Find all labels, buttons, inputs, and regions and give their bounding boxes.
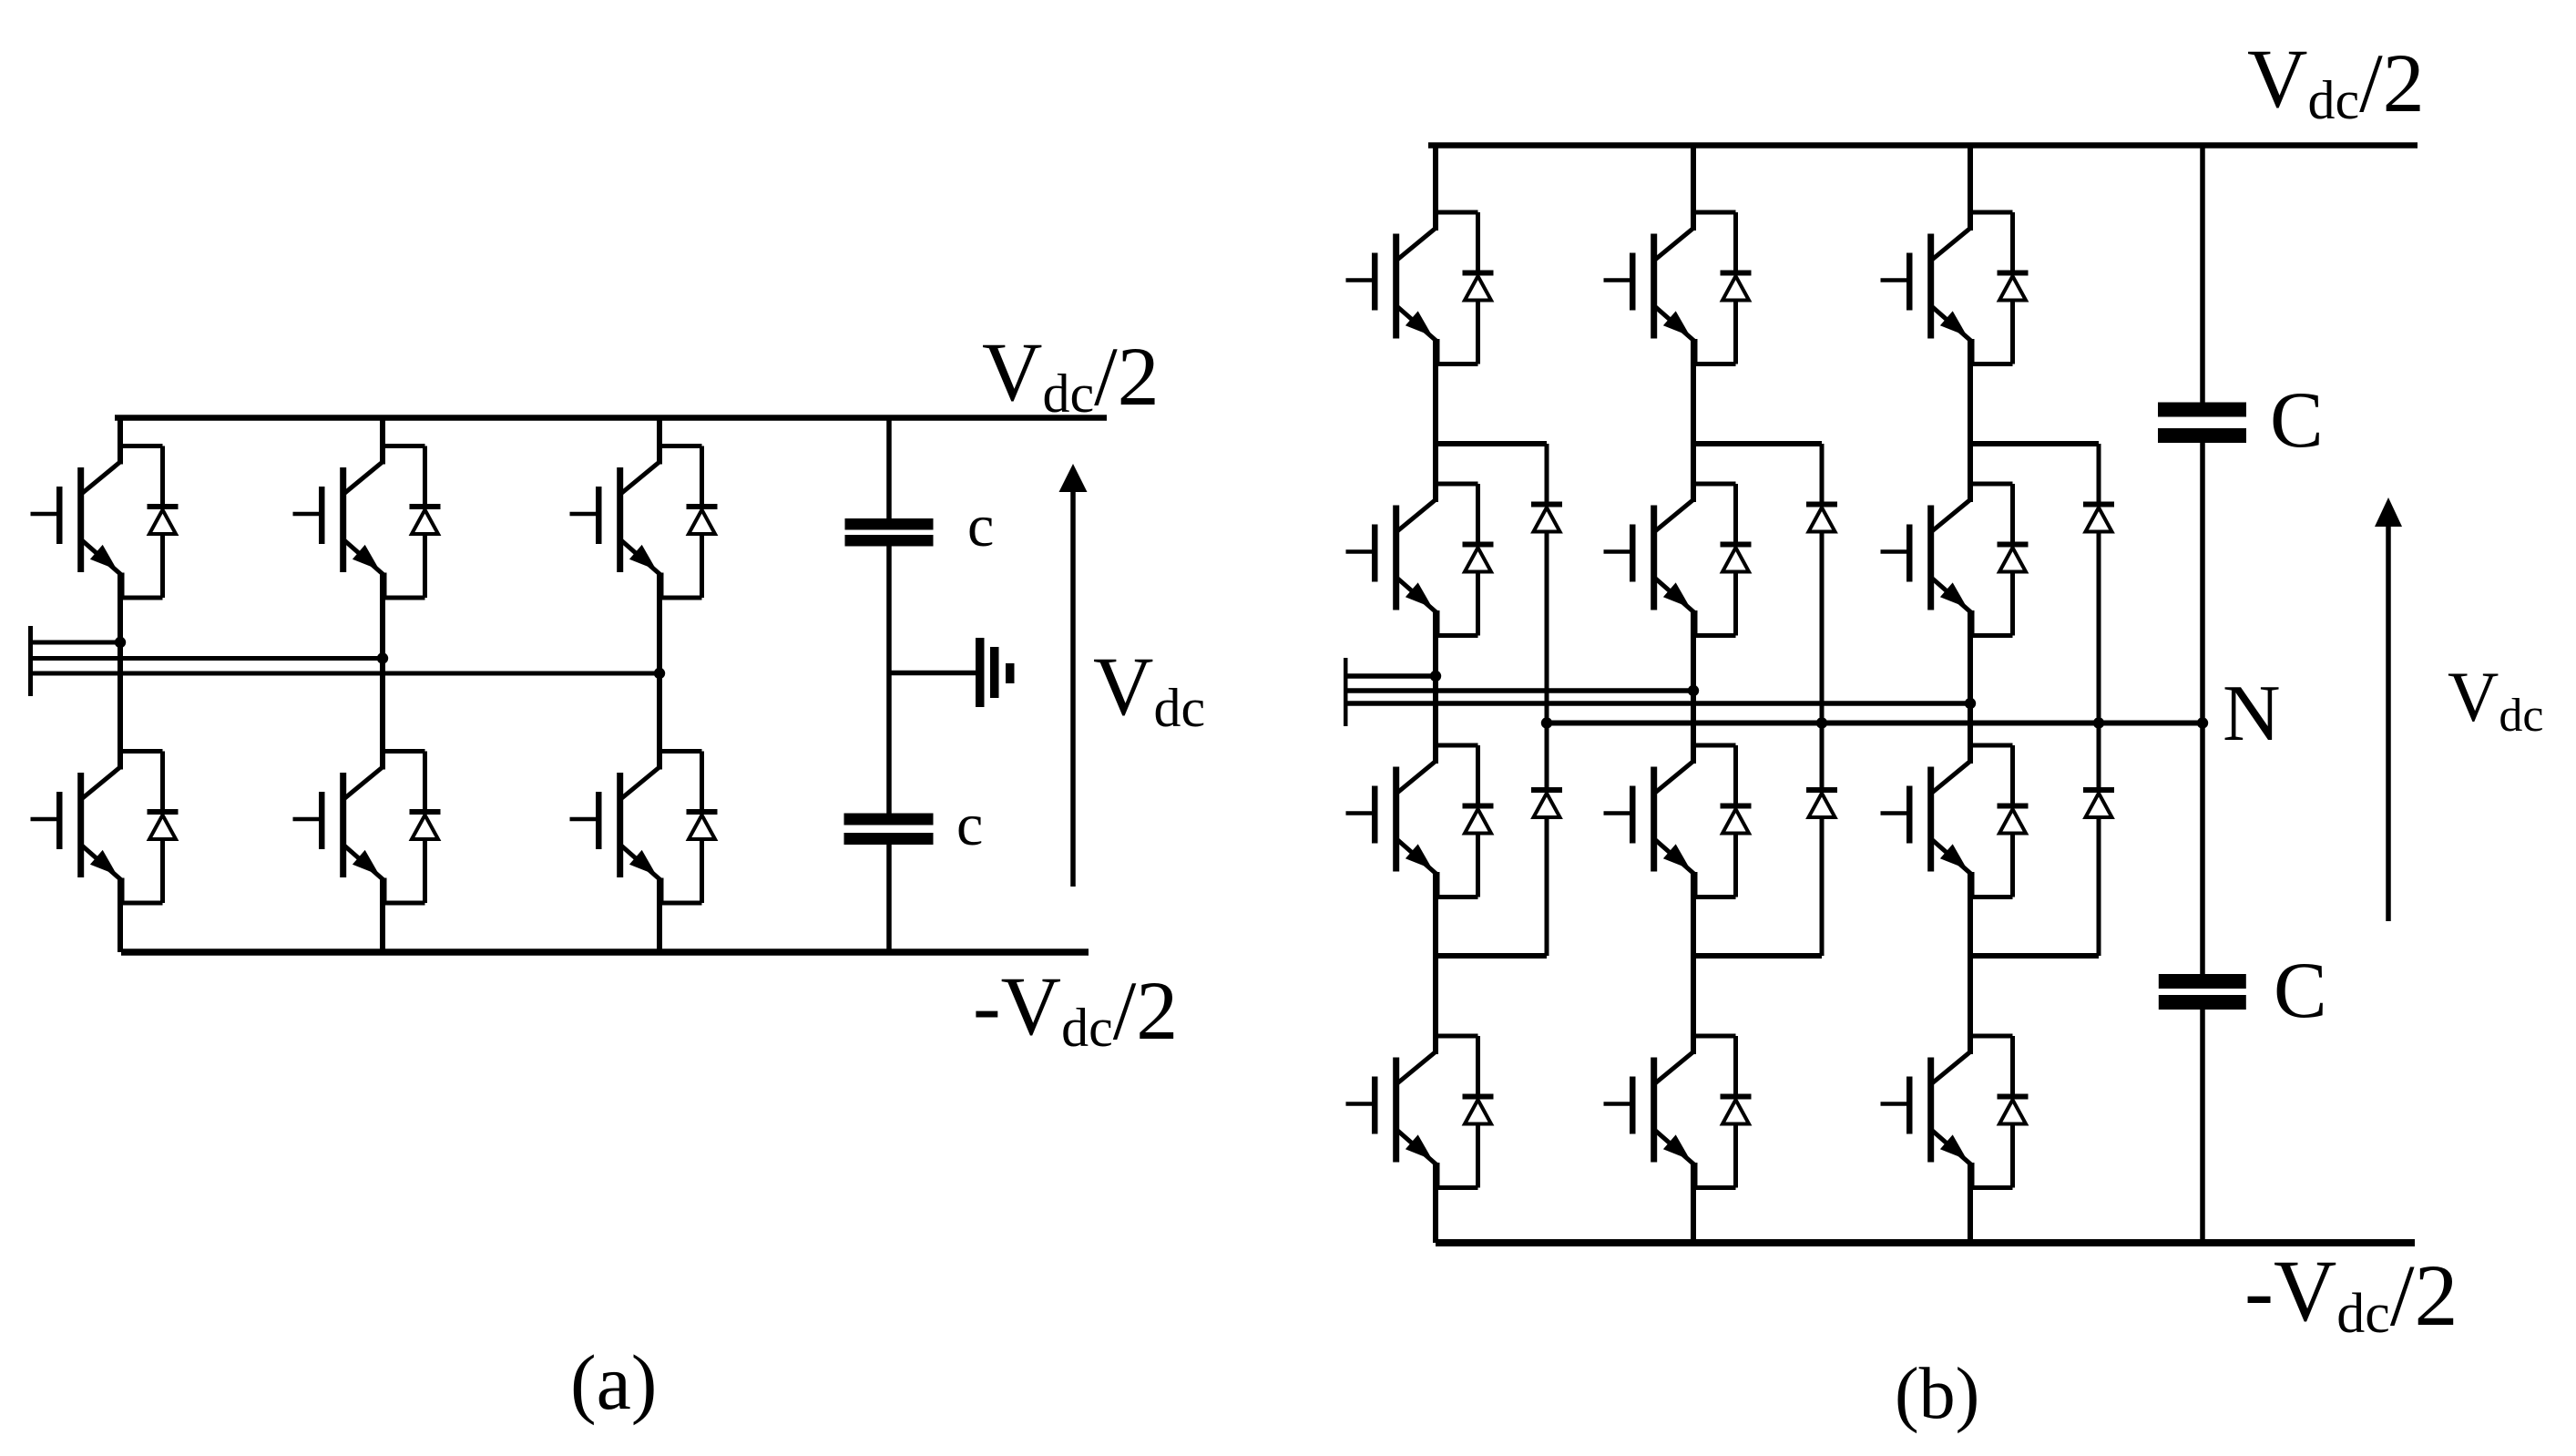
diode DA1 (b) upper clamping diode leg A bbox=[1545, 444, 1549, 502]
wire: leg B (a) midpoint vertical (S3 emitter to S4 collector) bbox=[380, 573, 385, 770]
circuit (b): three-level NPC inverter — top DC rail (+Vdc/2) bbox=[1428, 142, 2418, 149]
wire: leg A (a) collector post from +rail bbox=[118, 418, 123, 465]
wire: DC-link branch middle segment (a) bbox=[886, 547, 892, 815]
node: phase B junction dot (a) bbox=[377, 652, 388, 663]
wire: phase A output line (b) bbox=[1347, 673, 1436, 679]
wire: leg A (b) vertical SA3 emitter through J2 to SA4 bbox=[1433, 872, 1438, 1054]
wire: leg C (b) vertical SC2 emitter through phase node to SC3 bbox=[1968, 610, 1973, 764]
transistor S5 (a) top IGBT leg C with freewheeling diode bbox=[570, 444, 718, 600]
wire: DC-link branch lower segment (a) bbox=[886, 845, 892, 952]
wire: clamp branch J2 leg C (b) bbox=[1970, 953, 2099, 959]
transistor SA2 (b) leg A with freewheeling diode bbox=[1346, 481, 1494, 638]
transistor SC1 (b) leg C with freewheeling diode bbox=[1881, 210, 2029, 366]
three-phase output terminal bar (b) bbox=[1344, 658, 1348, 726]
wire: leg B (b) emitter post to -rail bbox=[1691, 1163, 1696, 1243]
wire: DC-link branch lower segment (b) bbox=[2200, 1009, 2205, 1243]
svg-text:(b): (b) bbox=[1895, 1354, 1979, 1434]
capacitor c1 (a) upper DC-link capacitor bbox=[845, 518, 934, 530]
transistor SC4 (b) leg C with freewheeling diode bbox=[1881, 1033, 2029, 1190]
wire: leg C (a) collector post from +rail bbox=[657, 418, 662, 465]
transistor S4 (a) bottom IGBT leg B with freewheeling diode bbox=[293, 749, 441, 906]
svg-text:c: c bbox=[967, 493, 994, 559]
circuit (a): two-level three-phase inverter — top DC rail (+Vdc/2) bbox=[115, 415, 1107, 421]
wire: phase B output line (a) bbox=[33, 656, 383, 661]
wire: leg C (b) vertical SC1 emitter through J1 to SC2 bbox=[1968, 339, 1973, 502]
node: neutral junction dot leg A (b) bbox=[1541, 717, 1552, 728]
wire: leg B (b) collector post from +rail bbox=[1691, 146, 1696, 231]
arrow: Vdc measurement arrow (a) bbox=[1070, 488, 1076, 887]
capacitor C2 (b) lower DC-link capacitor bbox=[2159, 974, 2246, 989]
node: phase A junction dot (b) bbox=[1430, 671, 1441, 682]
wire: leg C (b) emitter post to -rail bbox=[1968, 1163, 1973, 1243]
wire: leg B (b) vertical SB2 emitter through phase node to SB3 bbox=[1691, 610, 1696, 764]
diode DC2 (b) lower clamping diode leg C bbox=[2097, 724, 2101, 787]
wire: leg C (a) midpoint vertical (S5 emitter to S6 collector) bbox=[657, 573, 662, 770]
wire: leg A (b) emitter post to -rail bbox=[1433, 1163, 1438, 1243]
capacitor C1 (b) upper DC-link capacitor bbox=[2158, 403, 2246, 417]
node: phase B junction dot (b) bbox=[1688, 685, 1699, 696]
wire: leg A (a) emitter post to -rail bbox=[118, 878, 123, 953]
diode DB1 (b) upper clamping diode leg B bbox=[1820, 444, 1825, 502]
node: neutral junction dot leg B (b) bbox=[1816, 717, 1827, 728]
wire: ground tap from capacitor midpoint (a) bbox=[889, 671, 976, 676]
wire: leg A (a) midpoint vertical (S1 emitter to S2 collector) bbox=[118, 573, 123, 770]
wire: leg C (a) emitter post to -rail bbox=[657, 878, 662, 953]
wire: leg B (b) vertical SB1 emitter through J1 to SB2 bbox=[1691, 339, 1696, 502]
wire: leg B (b) vertical SB3 emitter through J2 to SB4 bbox=[1691, 872, 1696, 1054]
ground symbol (a) bbox=[976, 638, 985, 707]
wire: DC-link branch middle segment (b) bbox=[2200, 442, 2205, 975]
svg-text:N: N bbox=[2223, 670, 2281, 758]
wire: phase C output line (a) bbox=[33, 672, 659, 676]
transistor S3 (a) top IGBT leg B with freewheeling diode bbox=[293, 444, 441, 600]
transistor S6 (a) bottom IGBT leg C with freewheeling diode bbox=[570, 749, 718, 906]
capacitor c2 (a) lower DC-link capacitor bbox=[844, 814, 934, 825]
wire: leg A (b) vertical SA2 emitter through phase node to SA3 bbox=[1433, 610, 1438, 764]
svg-text:c: c bbox=[956, 792, 983, 858]
wire: clamp branch J2 leg B (b) bbox=[1693, 953, 1822, 959]
diode DC1 (b) upper clamping diode leg C bbox=[2097, 444, 2101, 502]
three-phase output terminal bar (a) bbox=[28, 626, 33, 696]
transistor SB4 (b) leg B with freewheeling diode bbox=[1604, 1033, 1752, 1190]
transistor SA3 (b) leg A with freewheeling diode bbox=[1346, 743, 1494, 899]
diode DB2 (b) lower clamping diode leg B bbox=[1820, 724, 1825, 787]
svg-text:(a): (a) bbox=[570, 1338, 657, 1426]
node: neutral-to-capacitor junction dot (b) bbox=[2197, 717, 2208, 728]
wire: phase B output line (b) bbox=[1347, 688, 1693, 693]
wire: leg B (a) collector post from +rail bbox=[380, 418, 385, 465]
wire: clamp branch J1 leg B (b) bbox=[1693, 441, 1822, 446]
transistor SB2 (b) leg B with freewheeling diode bbox=[1604, 481, 1752, 638]
svg-text:C: C bbox=[2270, 376, 2324, 465]
wire: leg A (b) vertical SA1 emitter through J1 to SA2 bbox=[1433, 339, 1438, 502]
wire: clamp branch J2 leg A (b) bbox=[1436, 953, 1547, 959]
wire: clamp branch J1 leg A (b) bbox=[1436, 441, 1547, 446]
node: phase C junction dot (b) bbox=[1965, 698, 1976, 709]
transistor SB1 (b) leg B with freewheeling diode bbox=[1604, 210, 1752, 366]
wire: leg B (a) emitter post to -rail bbox=[380, 878, 385, 953]
transistor SB3 (b) leg B with freewheeling diode bbox=[1604, 743, 1752, 899]
transistor SC2 (b) leg C with freewheeling diode bbox=[1881, 481, 2029, 638]
arrow: Vdc measurement arrow (b) bbox=[2386, 523, 2391, 921]
wire: phase A output line (a) bbox=[33, 641, 120, 645]
node: phase A junction dot (a) bbox=[115, 637, 126, 648]
transistor SC3 (b) leg C with freewheeling diode bbox=[1881, 743, 2029, 899]
wire: phase C output line (b) bbox=[1347, 701, 1970, 706]
wire: neutral bus N (b) bbox=[1547, 721, 2203, 726]
diode DA2 (b) lower clamping diode leg A bbox=[1545, 724, 1549, 787]
wire: DC-link branch upper segment (a) bbox=[886, 418, 892, 520]
wire: leg C (b) collector post from +rail bbox=[1968, 146, 1973, 231]
svg-text:C: C bbox=[2274, 947, 2327, 1035]
wire: leg C (b) vertical SC3 emitter through J2 to SC4 bbox=[1968, 872, 1973, 1054]
transistor S1 (a) top IGBT leg A with freewheeling diode bbox=[31, 444, 179, 600]
node: neutral junction dot leg C (b) bbox=[2093, 717, 2104, 728]
transistor S2 (a) bottom IGBT leg A with freewheeling diode bbox=[31, 749, 179, 906]
circuit (a): bottom DC rail (-Vdc/2) bbox=[121, 948, 1089, 956]
wire: DC-link branch upper segment (b) bbox=[2200, 146, 2205, 405]
wire: leg A (b) collector post from +rail bbox=[1433, 146, 1438, 231]
circuit (b): bottom DC rail (-Vdc/2) bbox=[1436, 1239, 2415, 1246]
transistor SA1 (b) leg A with freewheeling diode bbox=[1346, 210, 1494, 366]
node: phase C junction dot (a) bbox=[654, 668, 665, 679]
wire: clamp branch J1 leg C (b) bbox=[1970, 441, 2099, 446]
transistor SA4 (b) leg A with freewheeling diode bbox=[1346, 1033, 1494, 1190]
